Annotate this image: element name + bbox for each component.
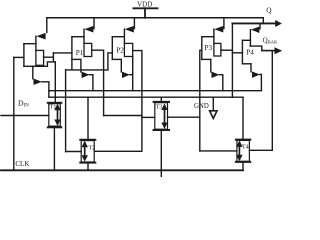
svg-text:CLK: CLK [15, 160, 29, 168]
svg-text:BAR: BAR [268, 40, 278, 45]
svg-text:P2: P2 [116, 47, 124, 55]
wire Q corner riser (P4 gate column) [231, 23, 233, 97]
wire T4 right link [249, 149, 272, 151]
wire P4 gate [232, 52, 242, 54]
svg-text:T3: T3 [156, 104, 163, 111]
QBAR output arrowhead [275, 47, 283, 54]
wire T2 gate riser [65, 70, 67, 152]
svg-text:T2: T2 [89, 144, 96, 151]
wire P1 exit drop [92, 50, 104, 115]
wire M1 exit to P1 gate [53, 52, 72, 54]
transistor T4 (pass) [236, 97, 250, 170]
wire P1 P2 gate row [66, 59, 108, 70]
wire P2 exit chain to T2 [94, 51, 142, 152]
GND symbol [210, 97, 217, 118]
wire T2 gate [66, 151, 82, 153]
transistor P1 [72, 18, 94, 91]
wire P3 gate riser (to T3 drain and T4 gate) [200, 50, 202, 151]
wire CLK bus [1, 169, 243, 171]
wire D_IN input line [1, 115, 49, 117]
svg-text:P4: P4 [246, 49, 254, 57]
wire bus A to bus B left link [48, 91, 50, 98]
svg-text:Q: Q [266, 6, 272, 15]
transistor P2 [112, 18, 134, 91]
svg-text:IN: IN [24, 104, 30, 109]
wire right rail [271, 51, 273, 151]
wire P2 gate [108, 53, 112, 70]
transistor T2 (pass) [80, 97, 95, 170]
wire T3 gate [142, 116, 155, 118]
VDD power symbol [133, 8, 157, 17]
wire bus A [49, 90, 262, 92]
transistor T3 (pass) [154, 97, 169, 176]
Q output arrowhead [275, 20, 282, 27]
transistor P4 [242, 23, 261, 90]
transistor P3 [202, 18, 224, 91]
node Q output wire [232, 22, 275, 24]
wire T4 gate row [200, 150, 237, 152]
wire T3 drain to P3 gate riser [168, 116, 200, 118]
svg-text:T1: T1 [49, 104, 56, 111]
node QBAR output wire [262, 50, 275, 52]
svg-text:GND: GND [194, 103, 209, 110]
transistor M1 (left cross-coupled PMOS) [24, 18, 49, 91]
wire P3 exit [221, 49, 233, 51]
svg-text:VDD: VDD [137, 1, 152, 9]
wire latch node to T1 [54, 62, 56, 103]
wire M1 gate stub [14, 56, 24, 58]
svg-text:P3: P3 [205, 44, 213, 52]
transistor T1 (pass) [48, 103, 62, 171]
wire bus B [49, 96, 243, 98]
wire rail corner to Q line [262, 18, 264, 24]
svg-text:T4: T4 [242, 144, 249, 151]
wire VDD rail [47, 17, 263, 19]
wire CLK riser left [13, 57, 15, 170]
svg-text:P1: P1 [76, 49, 84, 57]
wire M1 exit jog [44, 53, 56, 66]
wire P1 exit to T3 gate row [104, 115, 142, 117]
